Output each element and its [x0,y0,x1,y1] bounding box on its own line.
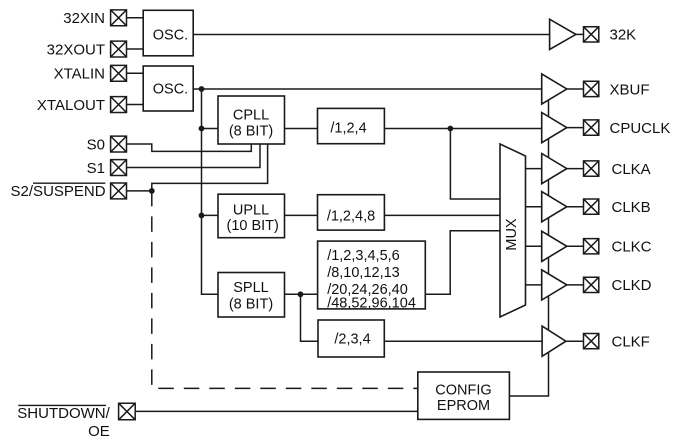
wire net S2 select to CPLL [127,144,268,191]
junction at OSC U2 output node [199,86,205,92]
svg-text:/8,10,12,13: /8,10,12,13 [327,265,400,281]
svg-text:/1,2,4,8: /1,2,4,8 [327,208,375,224]
divider /2,3,4 block [318,320,384,357]
svg-text:OSC.: OSC. [153,28,188,44]
wire CLKB buffer output stub [567,206,584,208]
svg-text:(8 BIT): (8 BIT) [229,297,273,313]
wire UPLL input stub [202,214,219,216]
svg-text:S1: S1 [87,160,105,177]
buffer CLKD [542,270,567,300]
svg-text:CLKB: CLKB [612,199,651,216]
svg-text:CONFIG: CONFIG [435,383,491,399]
wire divider /1,2,4 output to CPUCLK buffer [384,128,541,130]
svg-text:XTALOUT: XTALOUT [37,97,105,114]
wire XBUF buffer output stub [567,88,584,90]
junction at UPLL input node [199,213,205,219]
wire SHUTDOWN/OE to CONFIG EPROM [136,410,418,412]
wire 32XIN to OSC U1 [127,17,144,19]
overline for SHUTDOWN [18,404,106,406]
wire net S0 select to CPLL [127,144,252,152]
junction at CPUCLK divider node [448,126,454,132]
oscillator U1 box [143,10,193,56]
svg-text:/48,52,96,104: /48,52,96,104 [327,295,416,311]
buffer 32K [550,19,576,49]
svg-text:/1,2,4: /1,2,4 [330,120,366,136]
pad SHUTDOWN/OE [119,403,136,420]
wire OSC U1 output to 32K buffer [193,34,549,36]
pad CLKA [584,161,599,176]
wire CLKD buffer output stub [567,284,584,286]
pad CLKF [584,334,599,349]
svg-text:/1,2,3,4,5,6: /1,2,3,4,5,6 [327,248,400,264]
junction at CPLL input node [199,126,205,132]
wire CLKC buffer output stub [567,245,584,247]
wire CPLL output to divider [285,128,318,130]
junction at SPLL output node [298,291,304,297]
svg-text:CLKD: CLKD [612,277,652,294]
svg-text:SHUTDOWN/: SHUTDOWN/ [17,405,110,422]
wire node S feed to divider /2,3,4 [301,294,319,341]
pad S2/SUSPEND [111,183,127,199]
buffer CLKC [542,231,567,261]
overline for SUSPEND [33,182,105,184]
pad CPUCLK [584,120,599,135]
svg-text:32XOUT: 32XOUT [47,41,105,58]
SPLL block [218,273,285,318]
svg-text:32XIN: 32XIN [63,10,105,27]
buffer CLKB [542,192,567,222]
buffer CLKF [542,326,566,356]
divider /1,2,3,4,5,6... block [318,241,426,309]
wire big divider output to MUX input 3 [425,231,500,294]
pad CLKD [584,277,599,292]
pad CLKC [584,239,599,254]
buffer CLKA [542,154,567,184]
pad 32K [584,27,599,42]
wire MUX output to CLKD buffer [526,284,542,286]
divider /1,2,4,8 block [318,195,385,230]
wire CPUCLK buffer output stub [567,127,584,129]
svg-text:CLKA: CLKA [612,161,651,178]
junction at S2/SUSPEND node [149,188,155,194]
wire UPLL output to divider [285,214,318,216]
svg-text:SPLL: SPLL [233,280,268,296]
pad 32XOUT [111,41,127,57]
svg-text:EPROM: EPROM [437,398,490,414]
pad XTALOUT [111,97,127,113]
pad S0 [111,136,127,152]
svg-text:S2/SUSPEND: S2/SUSPEND [11,183,106,200]
oscillator U2 box [143,66,193,111]
wire divider /2,3,4 output to CLKF buffer [384,340,542,342]
svg-text:CPLL: CPLL [233,107,269,123]
wire net S1 select to CPLL [127,144,261,168]
wire SPLL output to big divider [285,293,318,295]
wire OSC U2 output to XBUF buffer [193,88,542,90]
divider /1,2,4 block [318,108,385,143]
svg-text:32K: 32K [610,27,637,44]
svg-text:CLKF: CLKF [612,334,650,351]
svg-text:XTALIN: XTALIN [54,66,105,83]
wire 32XOUT to OSC U1 [127,48,144,50]
wire divider /1,2,4,8 output to MUX input 2 [384,214,500,216]
svg-text:OSC.: OSC. [153,82,188,98]
svg-text:MUX: MUX [504,218,520,251]
buffer XBUF [542,74,567,104]
svg-text:OE: OE [88,423,110,440]
pad XTALIN [111,65,127,81]
UPLL block [218,194,285,238]
wire CONFIG EPROM output enable to buffers [509,100,548,396]
wire MUX output to CLKB buffer [526,206,542,208]
wire XTALIN to OSC U2 [127,72,144,74]
wire MUX output to CLKA buffer [526,168,542,170]
wire main clock vertical to SPLL input [202,89,219,294]
svg-text:S0: S0 [87,136,105,153]
svg-text:XBUF: XBUF [610,81,650,98]
wire CPLL input stub [202,128,219,130]
CONFIG EPROM block [418,372,510,419]
svg-text:(8 BIT): (8 BIT) [229,123,273,139]
pad S1 [111,160,127,176]
wire MUX input 1 from CPU clock node [450,129,500,200]
svg-text:UPLL: UPLL [233,202,269,218]
pad CLKB [584,199,599,214]
svg-text:/2,3,4: /2,3,4 [334,332,370,348]
wire 32K buffer output stub [576,33,584,35]
svg-text:CLKC: CLKC [612,239,652,256]
wire CLKF buffer output stub [566,340,584,342]
wire XTALOUT to OSC U2 [127,104,144,106]
wire CLKA buffer output stub [567,168,584,170]
wire MUX output to CLKC buffer [526,245,542,247]
wire dashed S2/SUSPEND to CONFIG EPROM [152,191,418,389]
buffer CPUCLK [542,113,567,143]
CPLL block [218,96,285,144]
pad XBUF [584,81,599,96]
svg-text:(10 BIT): (10 BIT) [227,218,279,234]
pad 32XIN [111,10,127,26]
svg-text:CPUCLK: CPUCLK [610,120,671,137]
MUX block [500,144,526,317]
